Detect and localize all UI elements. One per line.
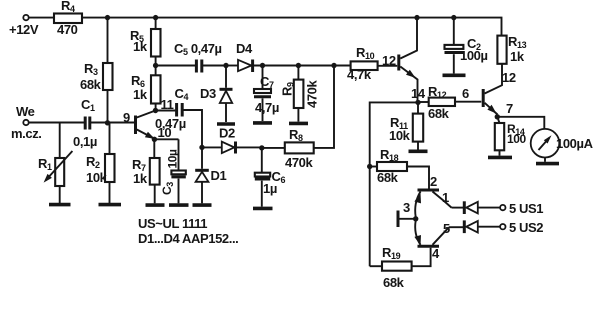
terminal US1 <box>500 205 505 210</box>
svg-text:100: 100 <box>507 132 527 146</box>
node 14 <box>415 100 420 105</box>
wire pin1 row <box>452 207 464 209</box>
ground <box>193 203 212 207</box>
resistor R9 <box>297 66 299 80</box>
diode US1 <box>463 201 466 214</box>
wire to C5 <box>156 65 196 67</box>
svg-text:100µA: 100µA <box>556 136 594 151</box>
svg-text:D1...D4 AAP152...: D1...D4 AAP152... <box>138 231 238 246</box>
resistor R3 <box>107 18 109 63</box>
svg-text:5 US2: 5 US2 <box>509 220 543 235</box>
resistor R19 <box>370 265 382 267</box>
svg-text:68k: 68k <box>377 170 399 185</box>
svg-text:US~UL 1111: US~UL 1111 <box>138 216 207 231</box>
resistor R2 <box>109 123 111 154</box>
svg-text:D1: D1 <box>211 168 227 183</box>
ground <box>443 74 466 78</box>
svg-text:12: 12 <box>382 53 396 68</box>
capacitor C7 <box>262 66 264 90</box>
node D3 tap <box>223 63 228 68</box>
svg-text:m.cz.: m.cz. <box>11 126 42 141</box>
wire base Q1 <box>108 122 135 124</box>
svg-text:9: 9 <box>123 110 130 125</box>
svg-text:10k: 10k <box>389 128 411 143</box>
node R18 tap <box>367 164 372 169</box>
node R5/R6 <box>153 63 158 68</box>
capacitor C3 <box>178 139 180 170</box>
svg-text:10k: 10k <box>86 170 108 185</box>
ground <box>49 203 71 207</box>
transistor Q2 (pin 12) <box>397 55 400 71</box>
capacitor C4 <box>175 103 178 117</box>
resistor R11 <box>417 102 419 113</box>
ground <box>146 203 165 207</box>
svg-text:5 US1: 5 US1 <box>509 201 543 216</box>
svg-text:1: 1 <box>442 190 449 205</box>
svg-text:We: We <box>16 104 35 119</box>
transistor Q3 (pins 6,7) <box>482 89 485 107</box>
resistor R4 <box>54 14 82 24</box>
node R9 tap <box>296 63 301 68</box>
capacitor C2 <box>451 15 456 20</box>
ground <box>289 122 308 126</box>
svg-text:5: 5 <box>443 221 450 236</box>
diode US2 <box>463 220 466 233</box>
wire <box>202 146 222 148</box>
capacitor C1 <box>84 117 87 130</box>
resistor R8 <box>262 147 285 149</box>
ground <box>409 150 428 154</box>
node rail Q2 collector <box>414 15 419 20</box>
terminal +12V <box>23 15 28 20</box>
transistor Q5 (pins 4,5) <box>418 245 440 248</box>
node A (rail/R3) <box>105 15 110 20</box>
diode D2 <box>222 142 235 153</box>
svg-text:+12V: +12V <box>9 22 39 37</box>
svg-text:14: 14 <box>411 86 426 101</box>
svg-text:12: 12 <box>502 70 516 85</box>
node 3 <box>397 211 400 228</box>
svg-text:470k: 470k <box>305 80 320 108</box>
resistor R13 <box>497 36 506 64</box>
wire emitter to meter <box>497 117 544 129</box>
svg-text:68k: 68k <box>383 275 405 290</box>
meter 100µA <box>531 129 560 158</box>
wire C4 row <box>156 110 176 112</box>
svg-text:C5 0,47µ: C5 0,47µ <box>174 41 222 57</box>
ground <box>217 122 235 126</box>
diode D1 <box>201 147 203 168</box>
svg-text:10µ: 10µ <box>166 149 180 169</box>
node base Q1 <box>105 120 110 125</box>
wire input <box>29 122 84 124</box>
ground <box>99 203 122 207</box>
svg-text:D4: D4 <box>236 41 253 56</box>
terminal US2 <box>500 224 505 229</box>
svg-text:1k: 1k <box>133 87 148 102</box>
node emitter Q1 <box>152 137 157 142</box>
node 7 <box>495 114 500 119</box>
transistor Q1 (pins 9,10,11) <box>134 116 137 135</box>
wire <box>226 65 238 67</box>
diode D4 <box>238 60 251 71</box>
svg-text:D3: D3 <box>200 86 216 101</box>
svg-text:0,1µ: 0,1µ <box>73 134 97 149</box>
svg-text:1k: 1k <box>133 39 148 54</box>
svg-text:4,7µ: 4,7µ <box>255 100 279 115</box>
svg-text:0,47µ: 0,47µ <box>155 116 186 131</box>
svg-text:68k: 68k <box>428 106 450 121</box>
svg-text:4: 4 <box>432 246 440 261</box>
capacitor C5 <box>195 60 198 73</box>
resistor R5 <box>155 18 157 29</box>
svg-text:2: 2 <box>430 174 437 189</box>
svg-text:100µ: 100µ <box>460 48 488 63</box>
svg-text:D2: D2 <box>219 126 235 141</box>
ground <box>253 121 272 125</box>
svg-text:470: 470 <box>57 22 78 37</box>
wire top rail <box>29 17 54 19</box>
svg-text:3: 3 <box>403 200 410 215</box>
wire node14 left <box>370 102 418 266</box>
node D1/D2 <box>199 145 204 150</box>
wire to C3 <box>154 138 178 140</box>
resistor R1 (variable) <box>59 123 61 159</box>
svg-text:470k: 470k <box>285 155 313 170</box>
node R5 top <box>153 15 158 20</box>
resistor R14 <box>497 117 499 123</box>
node R8 riser tap <box>331 63 336 68</box>
node C6/R8 <box>259 145 264 150</box>
wire riser to R8 <box>314 66 334 148</box>
resistor R7 <box>153 139 155 158</box>
ground <box>169 203 189 207</box>
svg-text:1µ: 1µ <box>263 181 277 196</box>
resistor R18 <box>370 166 377 168</box>
svg-text:1k: 1k <box>133 171 148 186</box>
node C7 tap <box>260 63 265 68</box>
svg-text:4,7k: 4,7k <box>347 67 372 82</box>
ground <box>488 156 512 160</box>
node collector Q1 <box>153 108 158 113</box>
svg-text:68k: 68k <box>80 77 102 92</box>
terminal We m.cz. <box>23 120 28 125</box>
svg-text:6: 6 <box>462 86 469 101</box>
resistor R6 <box>155 66 157 76</box>
capacitor C6 <box>261 148 263 173</box>
ground <box>253 207 273 211</box>
ground <box>536 162 559 166</box>
diode D3 <box>225 66 227 88</box>
wire pin5 row <box>449 226 463 228</box>
transistor Q4 (pins 2,1) <box>418 189 440 192</box>
resistor R10 <box>351 61 378 70</box>
svg-text:1k: 1k <box>510 49 525 64</box>
resistor R12 <box>418 101 429 103</box>
svg-text:7: 7 <box>506 101 513 116</box>
